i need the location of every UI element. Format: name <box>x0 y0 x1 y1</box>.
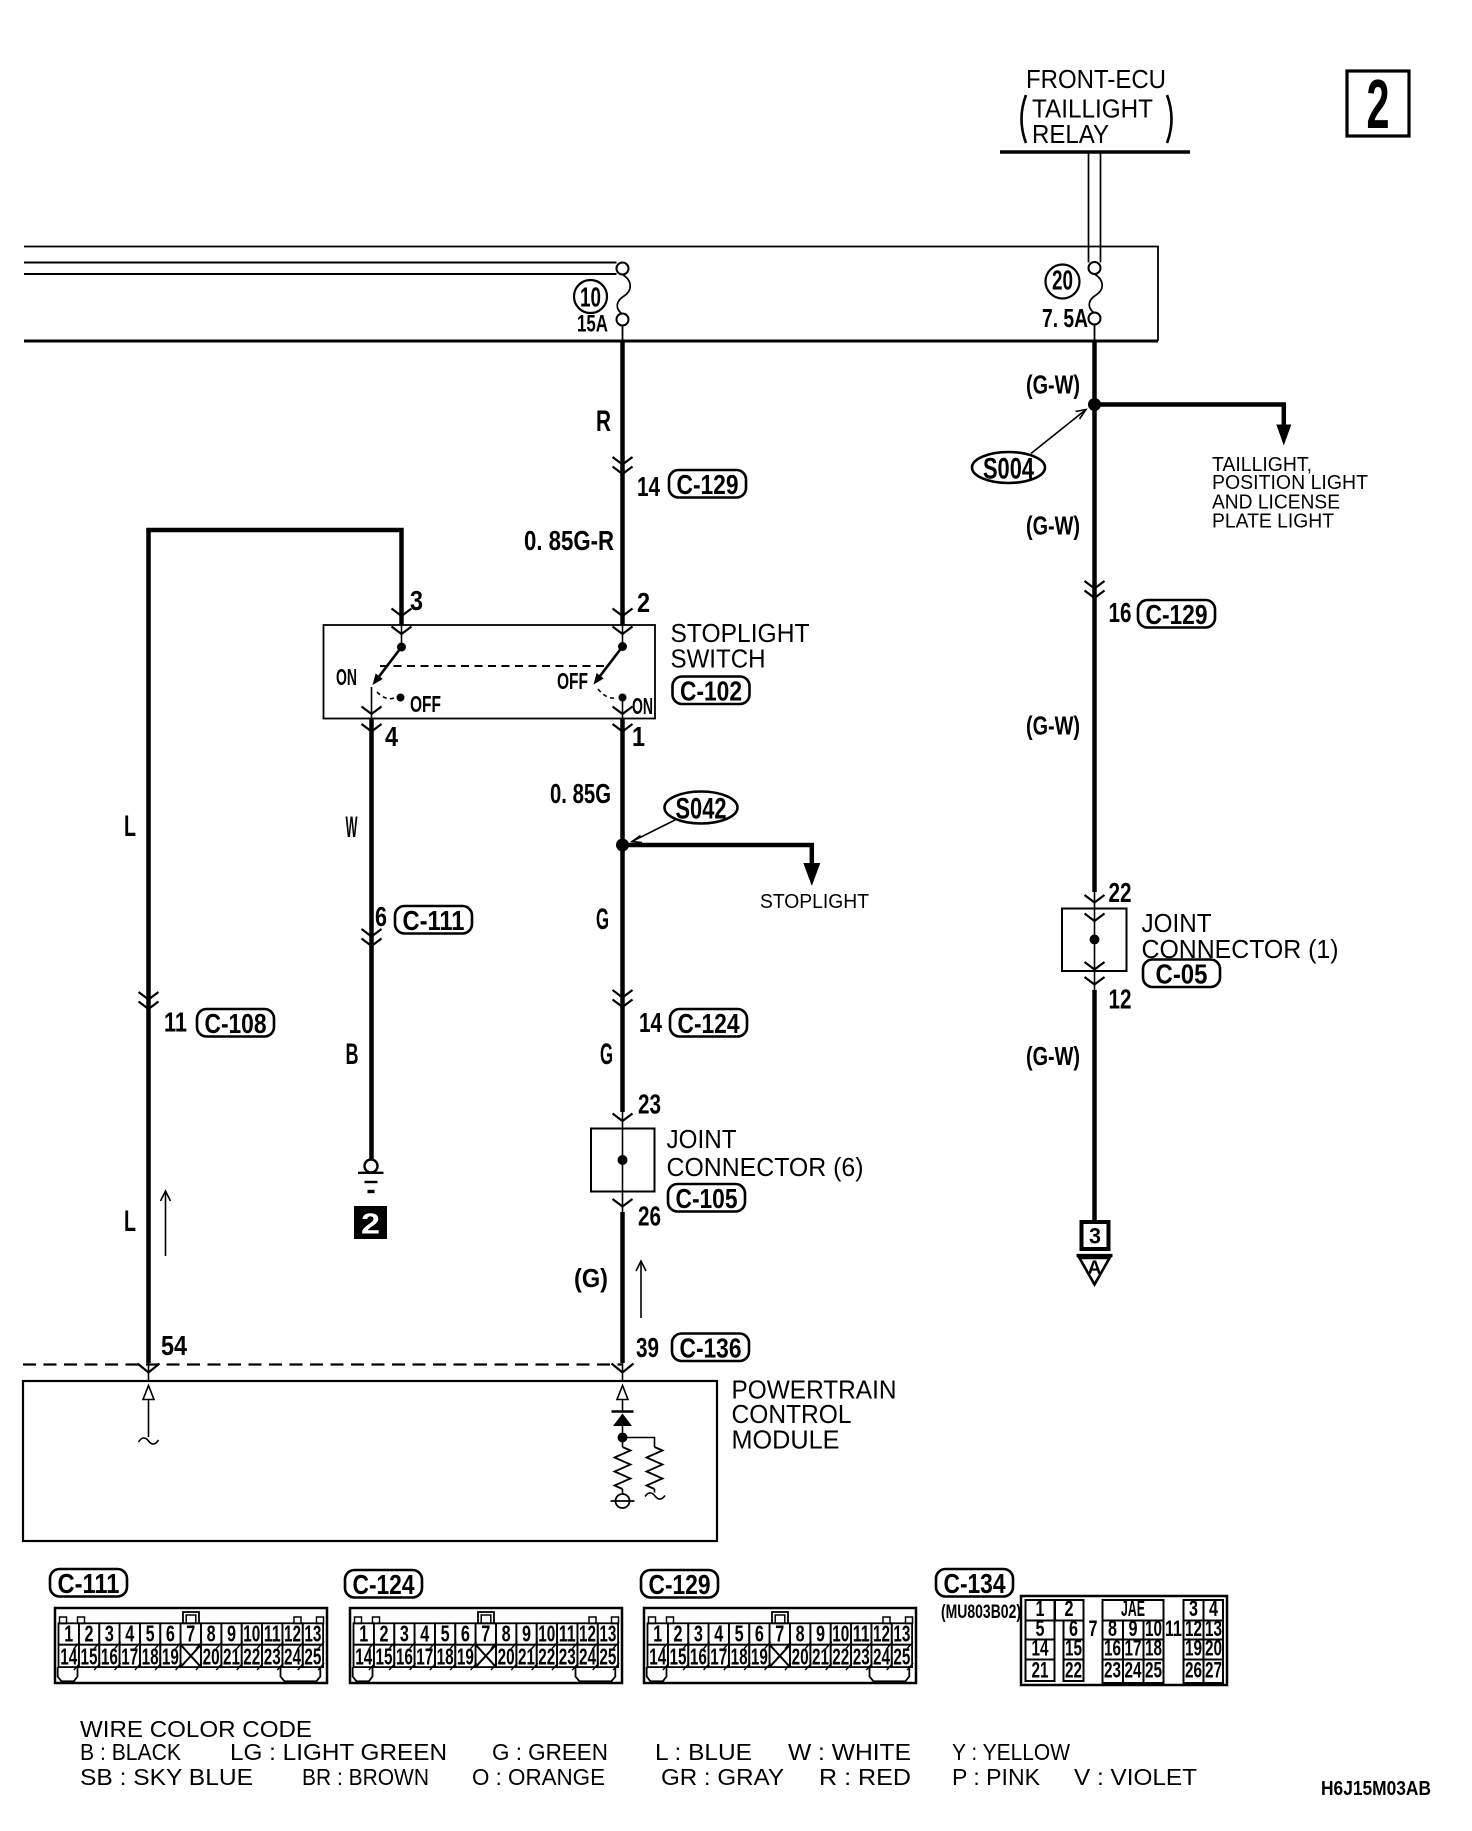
svg-text:2: 2 <box>361 1209 380 1241</box>
sensor ground symbol in PCM <box>616 1494 630 1508</box>
svg-text:S042: S042 <box>676 793 727 826</box>
connector label C-05 <box>1143 960 1220 988</box>
connector label C-124 <box>670 1009 747 1037</box>
svg-text:15A: 15A <box>577 311 608 338</box>
connector label C-102 <box>673 677 750 705</box>
svg-text:6: 6 <box>375 901 387 932</box>
connector label C-111 <box>395 906 472 934</box>
splice junction dot S042 <box>616 839 629 852</box>
wire 0.85G (switch pin 1 down) <box>620 719 625 1113</box>
svg-text:2: 2 <box>1367 65 1390 143</box>
svg-text:C-102: C-102 <box>680 676 742 707</box>
svg-text:RELAY: RELAY <box>1032 119 1109 149</box>
svg-text:P : PINK: P : PINK <box>952 1764 1041 1790</box>
ground reference box 2 <box>354 1206 387 1239</box>
svg-text:26: 26 <box>1185 1658 1202 1683</box>
wire from relay to fuse 20 (double line) <box>1088 154 1090 263</box>
svg-text:C-134: C-134 <box>944 1568 1006 1599</box>
svg-text:(G): (G) <box>574 1263 608 1293</box>
svg-text:23: 23 <box>638 1089 661 1120</box>
svg-text:7: 7 <box>481 1621 490 1647</box>
svg-text:27: 27 <box>1205 1658 1222 1683</box>
svg-text:ON: ON <box>336 664 357 690</box>
svg-text:Y : YELLOW: Y : YELLOW <box>952 1739 1070 1765</box>
svg-text:H6J15M03AB: H6J15M03AB <box>1321 1778 1431 1800</box>
svg-text:11: 11 <box>1165 1616 1182 1641</box>
svg-text:C-111: C-111 <box>58 1568 120 1599</box>
svg-text:(G-W): (G-W) <box>1026 711 1080 741</box>
svg-text:C-129: C-129 <box>649 1569 711 1600</box>
diode in PCM <box>612 1410 634 1413</box>
PCM connector dashed line <box>23 1363 622 1365</box>
svg-text:26: 26 <box>638 1201 661 1232</box>
svg-text:7: 7 <box>1089 1616 1098 1641</box>
linkage dashed line between switch halves <box>380 665 606 667</box>
svg-text:C-129: C-129 <box>677 469 739 500</box>
powertrain control module box <box>23 1381 717 1541</box>
switch left OFF contact <box>397 694 405 702</box>
svg-text:A: A <box>1088 1258 1102 1279</box>
PCM pin 39 internal circuit <box>617 1386 628 1400</box>
connector pass C-129 chevrons right <box>1085 581 1105 589</box>
switch right ON contact <box>619 694 627 702</box>
resistor 1 in PCM <box>622 1438 624 1448</box>
svg-text:OFF: OFF <box>410 691 441 717</box>
bus wire (double line) to fuse 10 <box>24 262 617 264</box>
svg-text:20: 20 <box>1052 265 1073 296</box>
svg-text:GR : GRAY: GR : GRAY <box>661 1764 784 1790</box>
connector pass C-111 chevrons <box>362 929 382 937</box>
svg-text:C-108: C-108 <box>205 1008 267 1039</box>
switch left lever (ON position) <box>379 647 401 676</box>
svg-text:O : ORANGE: O : ORANGE <box>472 1764 605 1790</box>
svg-text:C-105: C-105 <box>676 1183 738 1214</box>
svg-text:B : BLACK: B : BLACK <box>80 1739 182 1765</box>
svg-text:24: 24 <box>1125 1658 1143 1683</box>
switch pin 2 entry chevrons <box>613 609 633 617</box>
connector label C-124 bottom <box>345 1570 422 1598</box>
connector C-129 pinout diagram <box>644 1608 916 1683</box>
svg-text:S004: S004 <box>983 453 1034 486</box>
svg-text:BR : BROWN: BR : BROWN <box>302 1764 429 1790</box>
connector pass C-129 chevrons on wire R <box>613 457 633 465</box>
connector C-124 pinout diagram <box>350 1608 622 1683</box>
splice S004 label <box>972 452 1045 483</box>
wire G-W from fuse 20 down <box>1092 341 1097 892</box>
svg-text:C-124: C-124 <box>678 1008 740 1039</box>
svg-text:L: L <box>124 810 136 843</box>
svg-text:C-111: C-111 <box>403 905 465 936</box>
svg-text:4: 4 <box>385 721 398 752</box>
svg-text:L: L <box>124 1205 136 1238</box>
svg-text:0. 85G-R: 0. 85G-R <box>524 525 614 556</box>
svg-text:25: 25 <box>1145 1658 1162 1683</box>
svg-text:12: 12 <box>1109 984 1132 1015</box>
branch wire to taillight <box>1095 405 1284 427</box>
switch right output wire inside <box>622 698 624 719</box>
svg-text:3: 3 <box>1089 1224 1101 1249</box>
svg-text:C-136: C-136 <box>680 1333 742 1364</box>
svg-text:FRONT-ECU: FRONT-ECU <box>1026 64 1166 94</box>
direction arrow up beside wire 39 <box>640 1261 642 1318</box>
arrow from S004 to splice <box>1031 410 1086 454</box>
fuse 20 7.5A <box>1089 262 1101 274</box>
connector label C-108 <box>197 1009 274 1037</box>
svg-text:R : RED: R : RED <box>819 1764 911 1790</box>
page number box 2 <box>1347 71 1409 136</box>
connector C-134 pinout diagram <box>1021 1596 1227 1685</box>
svg-text:MODULE: MODULE <box>732 1425 840 1455</box>
svg-text:14: 14 <box>639 1007 662 1038</box>
stoplight switch box C-102 <box>324 625 656 719</box>
svg-text:1: 1 <box>632 721 645 752</box>
fuse 10 15A <box>617 263 629 275</box>
svg-text:3: 3 <box>410 585 423 616</box>
switch right pivot <box>618 642 627 651</box>
svg-text:R: R <box>596 405 611 438</box>
switch right lever (OFF position) <box>600 647 622 676</box>
connector pass C-108 chevrons <box>139 992 159 1000</box>
svg-text:LG : LIGHT GREEN: LG : LIGHT GREEN <box>230 1739 447 1765</box>
connector label C-134 bottom <box>936 1569 1013 1597</box>
wire R (fuse 10 to stoplight switch pin 2) <box>620 341 625 625</box>
wire (G) to PCM pin 39 <box>620 1212 625 1363</box>
switch right contact wire inside <box>622 625 624 647</box>
svg-text:SB : SKY BLUE: SB : SKY BLUE <box>80 1764 253 1790</box>
svg-text:11: 11 <box>164 1007 187 1038</box>
joint connector (1) C-05 box <box>1094 892 1096 909</box>
svg-text:39: 39 <box>636 1332 659 1363</box>
connector label C-111 bottom <box>50 1569 127 1597</box>
splice junction dot S004 <box>1088 398 1101 411</box>
svg-text:(G-W): (G-W) <box>1026 370 1080 400</box>
svg-text:22: 22 <box>1109 877 1132 908</box>
arrow from S042 to splice <box>632 820 675 842</box>
svg-text:10: 10 <box>580 282 601 313</box>
svg-text:CONNECTOR (6): CONNECTOR (6) <box>667 1152 864 1182</box>
wire G-W to off-page 3 <box>1092 990 1097 1222</box>
connector label C-129 <box>669 470 746 498</box>
off-page arrow A <box>1077 1254 1113 1257</box>
svg-text:C-129: C-129 <box>1146 599 1208 630</box>
junction block box <box>24 247 1158 342</box>
svg-text:B: B <box>346 1038 359 1071</box>
connector label C-105 <box>668 1184 745 1212</box>
off-page reference box 3 <box>1082 1222 1109 1249</box>
PCM pin 39 entry chevron <box>622 1363 624 1381</box>
svg-text:22: 22 <box>1065 1658 1082 1683</box>
direction arrow up beside wire L <box>165 1191 167 1256</box>
connector pass C-124 chevrons <box>613 990 633 998</box>
svg-text:7. 5A: 7. 5A <box>1042 303 1088 333</box>
switch pin 4 exit chevrons <box>362 707 382 715</box>
switch pin 1 exit chevrons <box>613 707 633 715</box>
svg-text:0. 85G: 0. 85G <box>550 778 611 809</box>
svg-text:(MU803B02): (MU803B02) <box>941 1602 1021 1623</box>
svg-text:ON: ON <box>632 693 653 719</box>
svg-text:V : VIOLET: V : VIOLET <box>1074 1764 1197 1790</box>
PCM pin 54 entry chevron <box>148 1363 150 1381</box>
svg-text:21: 21 <box>1032 1658 1049 1683</box>
switch left pivot <box>397 643 406 652</box>
svg-text:C-124: C-124 <box>353 1569 415 1600</box>
connector C-111 pinout diagram <box>55 1608 327 1683</box>
PCM pin 54 internal symbol <box>143 1386 154 1400</box>
svg-text:G : GREEN: G : GREEN <box>492 1739 608 1765</box>
svg-text:STOPLIGHT: STOPLIGHT <box>760 891 869 913</box>
splice S042 label <box>665 792 738 824</box>
svg-text:14: 14 <box>637 471 660 502</box>
svg-text:G: G <box>600 1038 613 1071</box>
svg-text:L : BLUE: L : BLUE <box>655 1739 752 1765</box>
svg-text:JOINT: JOINT <box>667 1124 737 1154</box>
svg-text:54: 54 <box>161 1330 187 1361</box>
connector label C-129 bottom <box>641 1570 718 1598</box>
svg-text:7: 7 <box>775 1621 784 1647</box>
svg-text:23: 23 <box>1104 1658 1121 1683</box>
svg-text:W : WHITE: W : WHITE <box>788 1739 911 1765</box>
joint connector (6) C-105 box <box>622 1112 624 1129</box>
switch left contact wire inside <box>401 625 403 647</box>
ground symbol <box>365 1160 378 1173</box>
svg-text:(G-W): (G-W) <box>1026 511 1080 541</box>
wire L (to stoplight switch pin 3 and PCM pin 54) <box>149 530 402 1363</box>
wire W (switch pin 4 down) <box>369 719 374 1160</box>
svg-text:PLATE LIGHT: PLATE LIGHT <box>1212 511 1334 533</box>
branch wire to stoplight <box>623 845 812 864</box>
svg-text:(G-W): (G-W) <box>1026 1041 1080 1071</box>
svg-text:OFF: OFF <box>557 668 588 694</box>
switch pin 3 entry chevrons <box>392 609 412 617</box>
svg-text:16: 16 <box>1109 597 1132 628</box>
svg-text:G: G <box>596 903 609 936</box>
svg-text:2: 2 <box>637 587 650 618</box>
connector label C-129 right <box>1138 600 1215 628</box>
FRONT-ECU bottom bar <box>1000 150 1190 154</box>
svg-text:SWITCH: SWITCH <box>671 644 766 674</box>
connector label C-136 <box>672 1334 749 1362</box>
junction dot in PCM <box>618 1433 628 1443</box>
svg-text:W: W <box>346 811 358 844</box>
svg-text:C-05: C-05 <box>1156 959 1208 990</box>
switch left output wire inside <box>371 687 373 719</box>
resistor 2 branch in PCM <box>623 1438 655 1448</box>
svg-text:7: 7 <box>186 1621 195 1647</box>
